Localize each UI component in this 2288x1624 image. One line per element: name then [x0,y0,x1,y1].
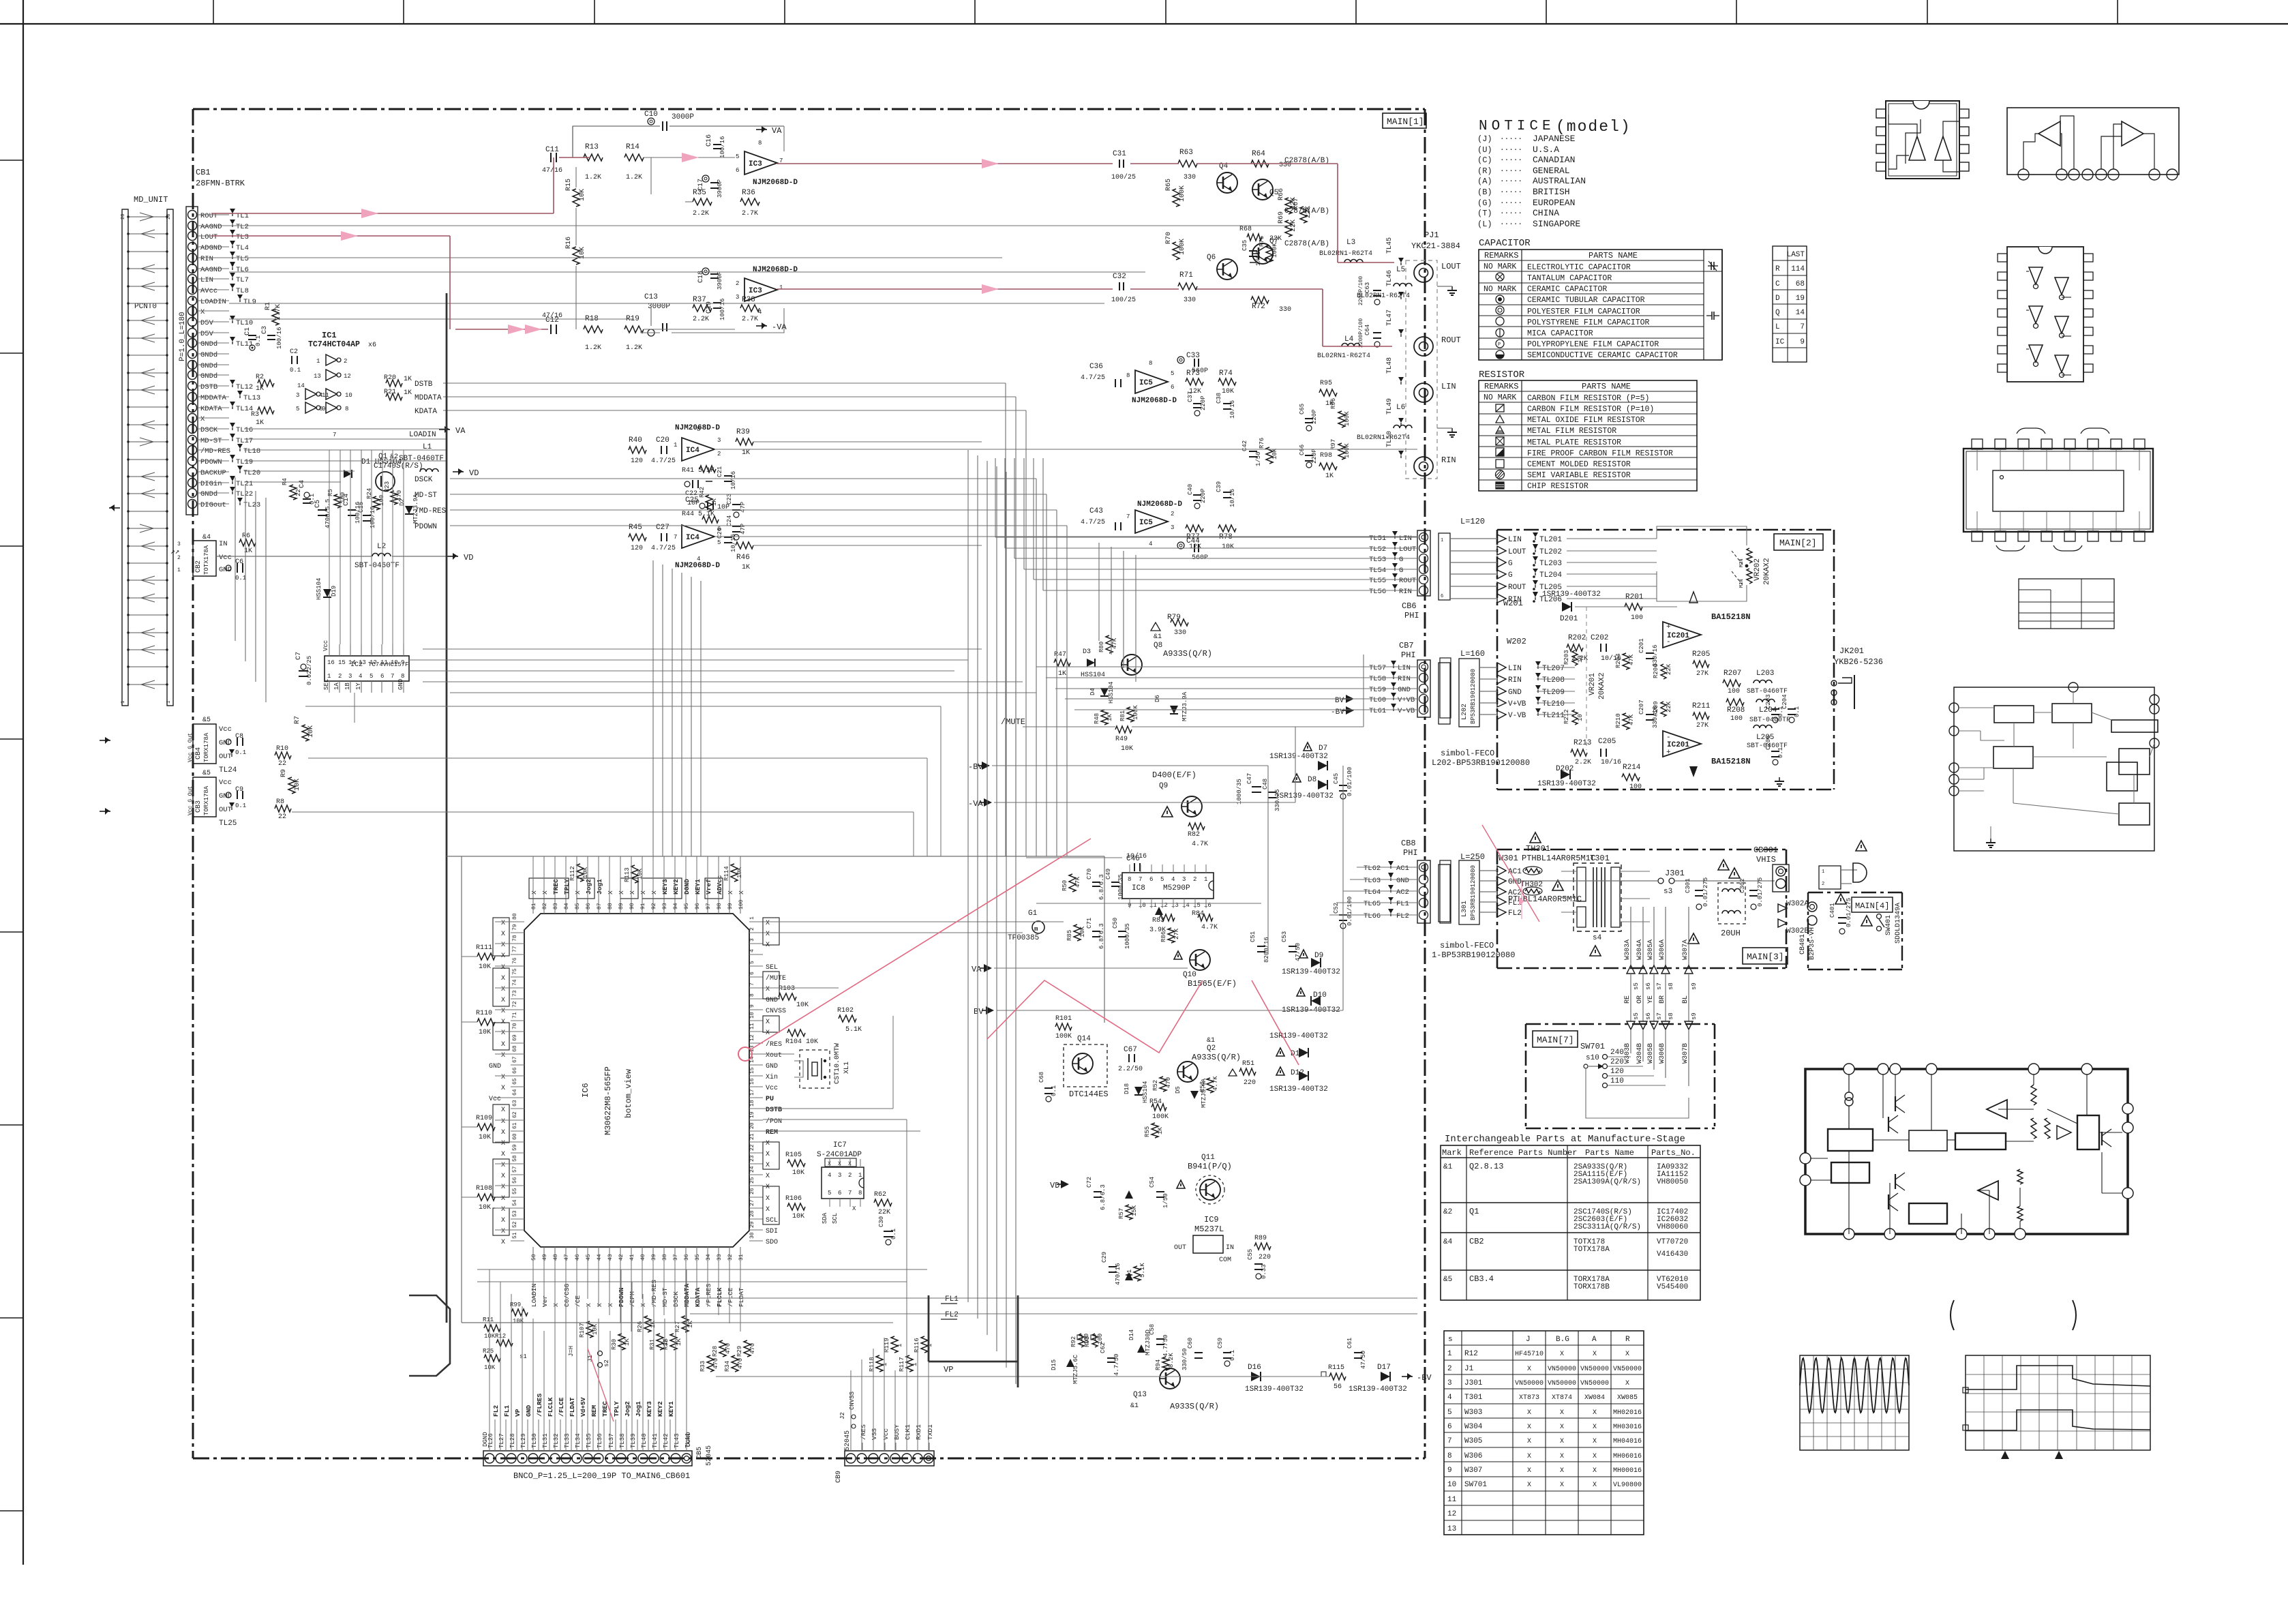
svg-text:8: 8 [697,426,700,433]
svg-text:X: X [1527,1453,1531,1460]
svg-text:25: 25 [749,1177,755,1184]
svg-text:/RES: /RES [860,1424,867,1440]
svg-text:1K: 1K [624,1338,631,1346]
svg-text:8: 8 [401,673,404,680]
svg-text:220: 220 [1259,1254,1271,1261]
svg-text:P: P [1498,342,1501,348]
svg-text:R28: R28 [712,1346,719,1357]
svg-text:L=160: L=160 [1460,649,1485,659]
svg-text:AC1: AC1 [1396,864,1409,873]
svg-text:C67: C67 [1124,1046,1137,1054]
svg-text:C31: C31 [1113,150,1126,158]
svg-text:GND: GND [219,739,232,747]
svg-text:DSCK: DSCK [415,476,433,484]
svg-text:X: X [618,890,625,894]
svg-text:R97: R97 [1330,439,1337,450]
svg-text:10/16: 10/16 [730,471,737,490]
svg-text:SW401: SW401 [1885,915,1893,935]
svg-text:X: X [501,1184,505,1191]
svg-text:IC7: IC7 [833,1141,847,1149]
svg-text:GND: GND [525,1405,532,1417]
svg-text:C64: C64 [1364,325,1371,335]
svg-text:1SR139-400T32: 1SR139-400T32 [1269,1032,1328,1040]
svg-text:D7: D7 [1319,745,1327,753]
svg-text:VH80050: VH80050 [1657,1178,1688,1186]
svg-text:R113: R113 [624,867,631,882]
svg-text:NJM2068D-D: NJM2068D-D [753,179,798,187]
svg-text:X: X [1560,1482,1564,1489]
svg-text:/MUTE: /MUTE [766,974,786,982]
svg-text:1: 1 [882,1363,888,1366]
svg-text:X: X [574,890,582,894]
svg-text:X: X [1560,1438,1564,1445]
svg-text:R76: R76 [1259,438,1265,449]
svg-text:TL64: TL64 [1364,888,1381,897]
svg-text:TL13: TL13 [243,394,260,402]
svg-text:MIN: MIN [1739,558,1745,567]
svg-text:X: X [552,1303,560,1307]
svg-text:TL16: TL16 [236,426,253,434]
svg-text:GND: GND [1508,689,1522,697]
svg-text:X: X [585,1303,592,1307]
svg-text:/MD-RES: /MD-RES [200,447,230,455]
svg-text:C16: C16 [706,134,713,147]
svg-text:MD-ST: MD-ST [661,1287,669,1307]
svg-text:X: X [501,1162,505,1169]
svg-text:MH06016: MH06016 [1613,1453,1642,1460]
svg-text:X: X [501,1041,505,1049]
svg-text:100/16: 100/16 [719,299,726,320]
svg-text:TL11: TL11 [236,340,253,348]
svg-text:CB4: CB4 [195,747,202,760]
svg-text:R66: R66 [1278,188,1285,200]
svg-text:0.01/100: 0.01/100 [1346,767,1353,796]
svg-text:W306: W306 [1464,1452,1482,1460]
svg-text:CB1: CB1 [196,168,211,177]
svg-text:BL02RN1-R62T4: BL02RN1-R62T4 [1357,434,1410,442]
svg-text:X: X [766,1173,770,1180]
svg-text:42: 42 [618,1254,624,1261]
svg-text:/CE: /CE [574,1295,582,1307]
svg-text:XT874: XT874 [1552,1394,1572,1402]
svg-text:MTZJ3.9A: MTZJ3.9A [1181,691,1188,721]
svg-text:R12: R12 [1464,1350,1478,1358]
svg-text:SW701: SW701 [1580,1042,1605,1051]
svg-text:47/16: 47/16 [542,166,562,175]
svg-text:L=120: L=120 [1460,517,1485,526]
svg-text:1SR139-400T32: 1SR139-400T32 [1269,753,1328,761]
svg-text:470/16: 470/16 [1115,1263,1122,1285]
svg-text:3: 3 [1182,876,1186,883]
svg-text:TL12: TL12 [236,383,253,391]
svg-text:10K: 10K [579,189,586,201]
svg-text:CHIP RESISTOR: CHIP RESISTOR [1527,482,1589,491]
svg-text:VP: VP [514,1409,522,1417]
svg-text:D: D [1775,295,1780,303]
svg-text:L202: L202 [1461,704,1469,720]
svg-text:RESISTOR: RESISTOR [1479,370,1525,380]
svg-text:+: + [1666,749,1671,757]
svg-text:1: 1 [674,442,677,449]
svg-text:.....: ..... [1500,145,1522,153]
svg-text:8: 8 [1126,372,1130,379]
svg-text:J1: J1 [1464,1365,1474,1373]
svg-text:100K: 100K [1152,1113,1169,1121]
svg-text:81: 81 [531,903,537,909]
svg-text:4: 4 [1171,876,1175,883]
svg-text:R204: R204 [1615,653,1622,668]
svg-text:&2: &2 [390,453,398,461]
svg-text:34: 34 [706,1254,712,1261]
svg-text:R48: R48 [1094,713,1100,724]
svg-text:120: 120 [1610,1068,1624,1076]
svg-text:MDDATA: MDDATA [200,394,227,402]
svg-text:/PON: /PON [766,1117,782,1126]
svg-text:TH302: TH302 [1520,881,1543,889]
svg-text:29: 29 [749,1221,755,1228]
svg-text:TL33: TL33 [564,1433,571,1448]
svg-text:10K: 10K [479,1134,491,1141]
svg-text:C201: C201 [1638,638,1645,653]
svg-text:G1: G1 [1028,909,1038,918]
svg-text:C21: C21 [717,466,723,477]
svg-text:5: 5 [370,673,373,680]
svg-text:D201: D201 [1560,615,1578,623]
svg-text:Mark: Mark [1442,1148,1462,1158]
svg-text:10K: 10K [294,779,301,791]
svg-text:220: 220 [1244,1079,1256,1087]
svg-text:D2: D2 [399,498,406,506]
svg-text:R98: R98 [1320,452,1332,460]
svg-text:R6: R6 [242,532,250,540]
svg-text:Vcc: Vcc [882,1428,890,1440]
svg-text:0.1: 0.1 [1777,747,1784,758]
svg-text:14: 14 [1796,309,1805,317]
svg-text:3: 3 [717,437,721,444]
svg-text:0.1: 0.1 [235,749,246,756]
svg-text:C: C [1775,280,1780,288]
svg-text:2200P/100: 2200P/100 [1358,276,1364,305]
svg-text:10K: 10K [592,1323,599,1335]
svg-text:TL26: TL26 [487,1433,494,1448]
svg-text:Vcc: Vcc [219,779,232,787]
svg-text:12: 12 [370,659,377,666]
svg-text:TP00385: TP00385 [1008,934,1039,942]
svg-text:/MD-RES: /MD-RES [650,1280,658,1307]
svg-text:7: 7 [1126,513,1130,520]
svg-text:/FLCE: /FLCE [558,1397,565,1417]
svg-text:C39: C39 [1216,481,1222,492]
svg-text:R208: R208 [1727,706,1745,715]
svg-text:X: X [501,1085,505,1092]
svg-text:s: s [1448,1336,1453,1344]
svg-text:ROUT: ROUT [1399,577,1416,585]
svg-text:.....: ..... [1500,219,1522,227]
svg-text:13: 13 [359,659,366,666]
svg-text:R72: R72 [1252,303,1265,311]
svg-text:1: 1 [177,567,181,573]
svg-text:C1740S(R/S): C1740S(R/S) [374,462,423,470]
svg-text:12: 12 [344,373,351,380]
svg-text:C33: C33 [1186,352,1200,360]
svg-text:.....: ..... [1500,155,1522,163]
svg-text:22K: 22K [878,1209,890,1216]
svg-text:68: 68 [512,1045,518,1052]
svg-text:1: 1 [858,1172,862,1179]
svg-text:GND: GND [219,792,232,800]
svg-text:1K: 1K [676,1338,682,1346]
svg-text:X: X [738,890,745,894]
svg-text:D15: D15 [1051,1359,1057,1370]
svg-text:TL47: TL47 [1386,310,1394,326]
svg-text:TL8: TL8 [236,287,249,295]
svg-text:47P: 47P [740,502,747,513]
svg-text:m: m [1034,926,1038,933]
svg-text:92: 92 [651,903,657,909]
svg-text:Q2.8.13: Q2.8.13 [1469,1162,1503,1171]
svg-text:CB401: CB401 [1799,934,1807,954]
svg-text:R10: R10 [276,745,288,753]
svg-text:C66: C66 [1299,445,1306,455]
svg-text:47K: 47K [1628,714,1635,725]
svg-text:47K: 47K [1628,654,1635,665]
svg-text:2.2/50: 2.2/50 [1118,1065,1143,1073]
svg-text:Vd+5V: Vd+5V [579,1397,587,1417]
svg-text:20KAX2: 20KAX2 [1598,672,1606,700]
svg-text:C1: C1 [244,327,252,335]
svg-text:MAIN[1]: MAIN[1] [1387,117,1424,127]
svg-text:13: 13 [314,373,321,380]
svg-text:1: 1 [1822,869,1824,875]
svg-text:TL52: TL52 [1369,545,1386,554]
svg-text:57: 57 [512,1166,518,1173]
svg-text:X: X [1625,1351,1629,1358]
svg-text:10K: 10K [479,963,491,971]
svg-text:R34: R34 [724,1361,731,1372]
svg-text:Jog2: Jog2 [624,1401,631,1417]
svg-text:&5: &5 [202,717,211,724]
svg-text:RIN: RIN [1398,675,1411,683]
svg-text:/MUTE: /MUTE [1001,717,1025,727]
svg-text:B.G: B.G [1556,1336,1569,1344]
svg-text:R89: R89 [1254,1235,1267,1242]
svg-text:6.8/6.3: 6.8/6.3 [1100,1184,1107,1210]
svg-text:POLYPROPYLENE FILM CAPACITOR: POLYPROPYLENE FILM CAPACITOR [1527,340,1659,349]
svg-text:W306A: W306A [1659,939,1666,960]
svg-text:R68: R68 [1239,226,1252,233]
svg-text:C32: C32 [1113,273,1126,281]
svg-text:LOUT: LOUT [1399,545,1416,554]
svg-text:6: 6 [1447,1423,1452,1431]
svg-text:x6: x6 [368,342,376,349]
svg-text:R201: R201 [1625,593,1644,601]
svg-text:C68: C68 [1038,1072,1045,1083]
svg-text:X: X [766,1140,770,1147]
svg-text:TL34: TL34 [575,1433,582,1448]
svg-text:TL204: TL204 [1539,571,1562,580]
svg-text:TL35: TL35 [586,1433,592,1448]
svg-text:.....: ..... [1500,187,1522,195]
svg-text:R202 C202: R202 C202 [1568,634,1608,642]
svg-text:11: 11 [749,1023,755,1029]
svg-text:PJ1: PJ1 [1424,230,1439,240]
svg-text:10: 10 [1577,714,1584,721]
svg-text:W303B: W303B [1624,1043,1631,1064]
svg-text:D3: D3 [1083,648,1091,656]
svg-text:7: 7 [333,432,336,438]
svg-text:METAL OXIDE FILM RESISTOR: METAL OXIDE FILM RESISTOR [1527,416,1645,425]
svg-text:100K: 100K [1132,705,1139,720]
svg-text:4: 4 [828,1172,831,1179]
svg-text:B1565(E/F): B1565(E/F) [1188,979,1237,989]
svg-text:10: 10 [1447,1481,1456,1489]
svg-text:R15: R15 [565,179,573,191]
svg-text:C53: C53 [1281,931,1288,942]
svg-text:C11: C11 [545,146,559,154]
svg-text:47/50: 47/50 [1360,1351,1367,1369]
svg-text:R107: R107 [579,1323,586,1338]
svg-text:1: 1 [121,701,126,704]
svg-text:TL39: TL39 [630,1433,637,1448]
svg-text:1K: 1K [256,385,264,393]
svg-text:(B): (B) [1477,187,1492,197]
svg-text:0.1: 0.1 [235,802,246,809]
svg-text:HSS104: HSS104 [1142,1081,1149,1103]
svg-text:C205: C205 [1598,738,1616,746]
svg-text:10K: 10K [579,247,586,259]
svg-text:MH03016: MH03016 [1613,1424,1642,1431]
svg-text:1A: 1A [333,682,340,690]
svg-text:KEY3: KEY3 [661,879,669,894]
svg-text:C401: C401 [1829,903,1836,918]
svg-text:R109: R109 [476,1115,492,1122]
svg-text:DIGout: DIGout [200,501,226,509]
svg-text:M5237L: M5237L [1194,1224,1224,1234]
svg-text:KEY2: KEY2 [672,879,680,894]
svg-text:31: 31 [738,1254,744,1261]
svg-text:s9: s9 [1691,1012,1698,1020]
svg-text:R7: R7 [294,716,301,724]
svg-text:43: 43 [607,1254,614,1261]
svg-text:TL37: TL37 [608,1433,615,1448]
svg-text:(J): (J) [1477,134,1492,144]
svg-text:TL28: TL28 [509,1433,516,1448]
svg-text:X: X [501,1074,505,1081]
svg-text:s7: s7 [1656,982,1663,990]
svg-text:27: 27 [749,1199,755,1206]
svg-text:DGND: DGND [683,879,691,894]
svg-text:20UH: 20UH [1721,929,1741,938]
svg-text:10K: 10K [796,1002,809,1009]
svg-text:C55: C55 [1247,1249,1254,1260]
svg-text:10K: 10K [479,1029,491,1036]
svg-text:BL02RN1-R62T4: BL02RN1-R62T4 [1317,352,1370,360]
svg-text:s4: s4 [1593,934,1602,942]
svg-text:1: 1 [897,1344,903,1347]
svg-text:MAIN[2]: MAIN[2] [1779,538,1817,548]
svg-text:&4: &4 [1443,1238,1453,1246]
svg-text:1.2K: 1.2K [626,344,642,352]
svg-text:VL90800: VL90800 [1613,1482,1642,1489]
svg-text:6: 6 [380,673,384,680]
svg-text:FL2: FL2 [1508,909,1522,918]
svg-text:X: X [766,986,770,993]
svg-text:2SC3311A(Q/R/S): 2SC3311A(Q/R/S) [1574,1223,1641,1231]
svg-text:VD: VD [469,468,479,478]
svg-text:9: 9 [322,406,325,412]
svg-text:PU: PU [766,1096,774,1103]
svg-text:1-BP53RB190120080: 1-BP53RB190120080 [1432,950,1515,960]
svg-text:Vcc: Vcc [219,554,232,562]
svg-text:BR: BR [1659,995,1666,1004]
svg-text:2: 2 [717,451,721,457]
svg-text:1.2K: 1.2K [585,344,601,352]
svg-text:36: 36 [684,1254,690,1261]
svg-text:J: J [1526,1336,1531,1344]
svg-text:POLYSTYRENE FILM CAPACITOR: POLYSTYRENE FILM CAPACITOR [1527,318,1650,327]
svg-text:TL207: TL207 [1542,665,1565,673]
svg-text:RIN: RIN [1399,588,1412,596]
svg-text:10: 10 [391,659,398,666]
svg-text:1: 1 [1447,1350,1452,1358]
svg-text:X: X [766,931,770,938]
svg-text:TL4: TL4 [236,244,249,252]
svg-text:1: 1 [927,1344,933,1347]
svg-text:5: 5 [1160,876,1164,883]
svg-text:5: 5 [1171,370,1174,377]
svg-text:1K: 1K [1107,714,1113,721]
svg-text:7: 7 [674,534,677,541]
svg-text:52: 52 [512,1221,518,1228]
svg-text:IC8: IC8 [1132,884,1145,892]
svg-text:RXD1: RXD1 [915,1424,922,1440]
svg-text:5: 5 [736,153,739,160]
svg-text:IC5: IC5 [1139,519,1153,527]
svg-text:&1: &1 [1443,1163,1453,1171]
svg-text:IC3: IC3 [749,287,762,295]
svg-text:75: 75 [512,968,518,975]
svg-text:28: 28 [121,214,126,220]
svg-text:2: 2 [1171,511,1174,517]
svg-text:R35: R35 [693,189,706,197]
svg-text:100/16: 100/16 [276,327,283,349]
svg-text:1/50: 1/50 [1255,451,1262,466]
svg-text:X: X [1527,1482,1531,1489]
svg-text:/FLRES: /FLRES [536,1393,543,1417]
svg-text:D4: D4 [1089,688,1096,695]
svg-text:X: X [501,942,505,949]
svg-text:8: 8 [749,993,755,997]
svg-text:DSCK: DSCK [672,1291,680,1307]
svg-text:simbol-FECO: simbol-FECO [1440,941,1494,950]
svg-text:90: 90 [629,903,635,909]
svg-text:A933S(Q/R): A933S(Q/R) [1163,649,1212,659]
svg-text:3: 3 [1447,1379,1452,1387]
svg-text:47: 47 [564,1254,570,1261]
svg-text:C47: C47 [1246,773,1253,784]
svg-text:89: 89 [618,903,624,909]
svg-text:OUT: OUT [219,753,232,761]
svg-text:MICA CAPACITOR: MICA CAPACITOR [1527,329,1593,338]
svg-text:MD-ST: MD-ST [200,437,222,445]
svg-text:100K: 100K [1055,1033,1072,1040]
svg-text:23: 23 [749,1155,755,1162]
svg-text:R13: R13 [585,143,599,151]
svg-text:TL51: TL51 [1369,535,1386,543]
svg-text:21: 21 [749,1133,755,1140]
svg-text:W307: W307 [1464,1467,1482,1475]
svg-text:R31: R31 [649,1339,656,1350]
